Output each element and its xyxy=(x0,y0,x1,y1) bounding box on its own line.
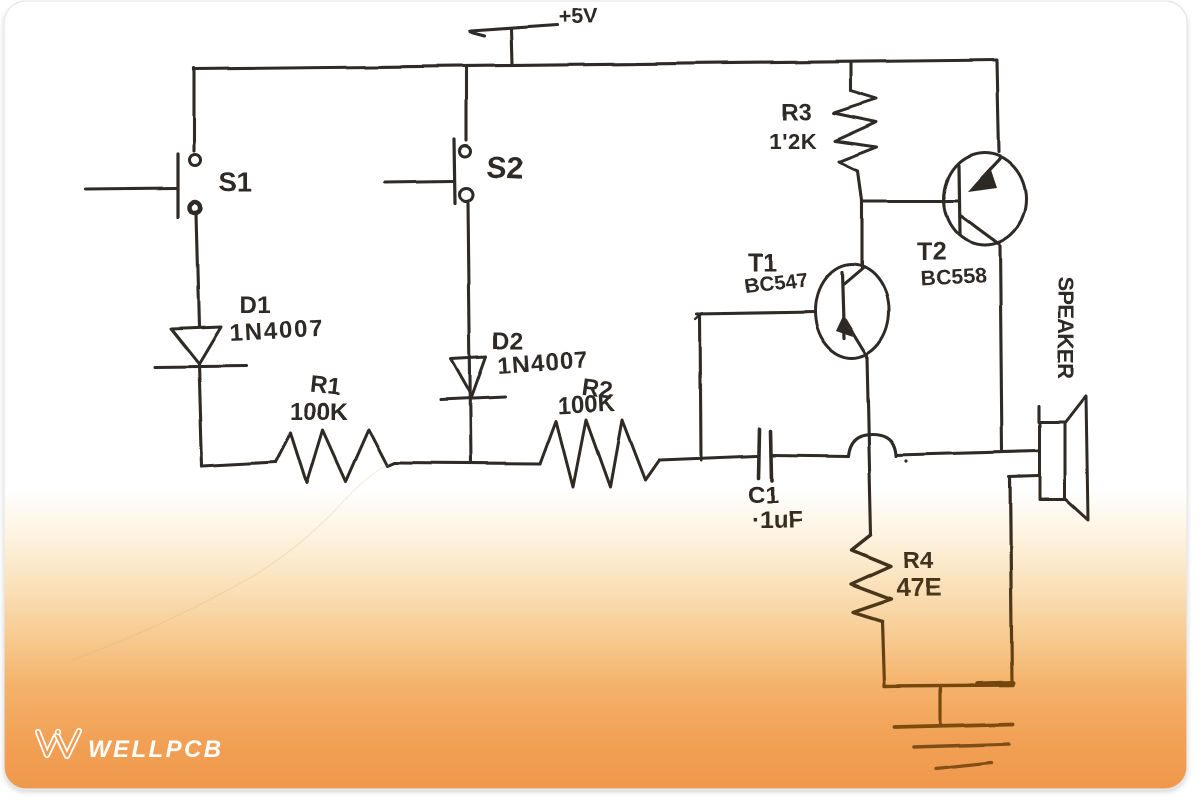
svg-text:100K: 100K xyxy=(290,399,348,426)
svg-text:+5V: +5V xyxy=(558,4,598,29)
svg-text:R1: R1 xyxy=(308,371,341,401)
svg-text:T2: T2 xyxy=(917,238,946,266)
svg-text:1'2K: 1'2K xyxy=(769,129,817,154)
svg-text:S1: S1 xyxy=(219,167,252,197)
svg-text:S2: S2 xyxy=(486,151,524,186)
svg-text:100K: 100K xyxy=(557,390,616,420)
svg-text:·1uF: ·1uF xyxy=(752,507,803,534)
svg-text:47E: 47E xyxy=(896,572,942,602)
svg-text:SPEAKER: SPEAKER xyxy=(1053,277,1078,379)
svg-text:C1: C1 xyxy=(748,482,779,509)
svg-text:BC558: BC558 xyxy=(920,265,987,291)
svg-text:1N4007: 1N4007 xyxy=(229,315,325,347)
svg-text:D1: D1 xyxy=(240,292,271,319)
svg-text:R4: R4 xyxy=(903,547,934,574)
svg-text:R3: R3 xyxy=(781,99,812,126)
svg-text:WELLPCB: WELLPCB xyxy=(88,736,223,763)
